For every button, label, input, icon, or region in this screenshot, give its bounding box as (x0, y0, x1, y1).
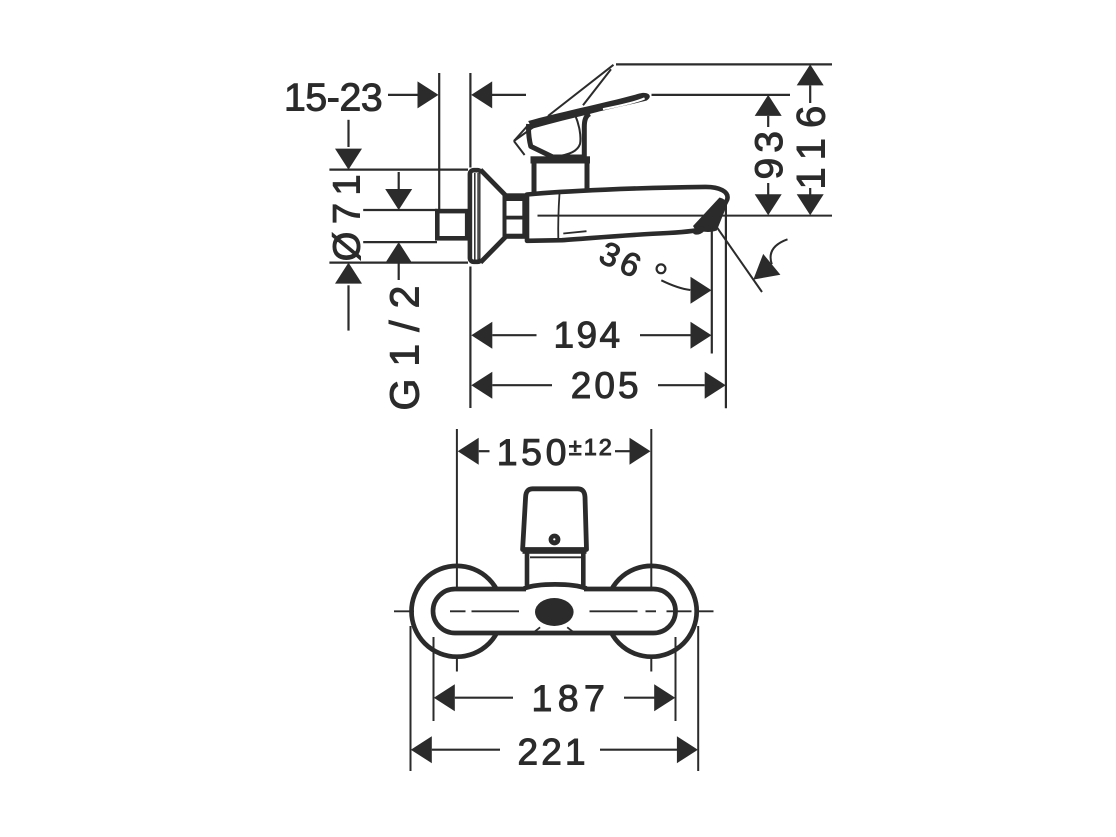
flow direction diagonal (714, 224, 762, 292)
15-23 right-pointing arrow (388, 94, 420, 96)
spout underside seam line (563, 231, 586, 233)
neck left wall (525, 554, 530, 586)
lever blade white sliver (603, 98, 645, 109)
svg-text:150: 150 (497, 431, 570, 473)
G1/2 bottom arrow (up) (385, 242, 412, 263)
dimension 116 up arrow (797, 64, 824, 85)
s-union lower window (507, 220, 523, 234)
Ø71 bottom arrow (up) (335, 263, 362, 284)
extension line at spout tip (725, 205, 727, 408)
handle inner line (530, 556, 581, 558)
svg-text:15-23: 15-23 (284, 77, 382, 120)
dimension 93 up arrow (755, 95, 782, 116)
knob facet line 2 (514, 118, 547, 141)
handle dot (549, 534, 561, 546)
aerator tick right (567, 627, 573, 632)
left escutcheon circle (412, 566, 503, 657)
Ø71 top arrow (down) (347, 120, 349, 147)
spout tip aerator dark face (693, 198, 726, 232)
body stadium (433, 589, 676, 633)
s-union upper window (507, 201, 523, 216)
spout joint line (558, 194, 559, 239)
escutcheon cone (481, 170, 505, 263)
neck right wall (581, 554, 586, 586)
spout-level reference / center line (538, 215, 833, 217)
handle lever blade (528, 93, 650, 129)
top reference line (max lever height) (616, 63, 832, 65)
knob facet line 4 (514, 125, 529, 141)
svg-text:205: 205 (571, 365, 642, 406)
dimension 221 (411, 736, 432, 763)
150 extension / center line right (650, 429, 652, 618)
extension line at spout outlet (711, 226, 713, 354)
knob facet line 1 (556, 115, 580, 156)
221 extension line left (410, 626, 412, 771)
dimension 194 (471, 322, 492, 349)
handle collar bar (531, 156, 591, 163)
cartridge neck right wall (585, 160, 590, 192)
right escutcheon circle (606, 566, 697, 657)
dimension Ø71 bottom line (329, 262, 468, 264)
horizontal center line segments (394, 610, 414, 612)
aerator outlet (535, 598, 574, 626)
aerator tick left (534, 627, 540, 632)
wall connector square (437, 211, 467, 238)
ghost raised lever line 1 (548, 65, 614, 116)
dimension 116 down arrow (809, 188, 811, 195)
flow leader curve (771, 239, 788, 264)
svg-text:221: 221 (518, 731, 589, 772)
escutcheon inner double line (474, 173, 476, 260)
dimension 205 (471, 372, 492, 399)
escutcheon back plate (470, 170, 482, 262)
svg-text:116: 116 (790, 96, 834, 190)
ghost raised lever line 2 (583, 69, 611, 105)
wall finish line (outer) (438, 73, 440, 209)
svg-text:±12: ±12 (569, 434, 614, 460)
dimension 150±12 (458, 438, 479, 465)
wall surface line lower segment (469, 267, 471, 409)
handle knob outline (529, 124, 585, 157)
cartridge neck left wall (532, 160, 537, 192)
187 extension line left (433, 637, 435, 721)
dimension 93 down arrow (767, 183, 769, 195)
wall surface line (469, 73, 471, 168)
15-23 left-pointing arrow (471, 81, 492, 108)
36deg leader curve (661, 280, 690, 290)
neck joint bump mask (526, 583, 584, 592)
G1/2 top arrow (down) (398, 172, 400, 189)
handle bottom bar (523, 548, 587, 554)
svg-text:36: 36 (594, 234, 650, 286)
dimension Ø71 top line (329, 169, 468, 171)
svg-text:187: 187 (532, 677, 611, 719)
svg-text:194: 194 (554, 314, 623, 355)
lever-top reference line right segment (652, 94, 791, 96)
221 extension line right (697, 626, 699, 771)
handle front outline (523, 489, 587, 550)
lever-top reference line left stub (492, 94, 526, 96)
aerator lip blob (692, 225, 707, 237)
svg-text:G1/2: G1/2 (381, 274, 427, 411)
degree ring (657, 264, 666, 273)
faucet body and spout outline (527, 187, 728, 241)
knob facet line 3 (514, 141, 525, 155)
187 extension line right (675, 637, 677, 721)
neck joint bump (524, 584, 587, 588)
G1/2 connector top line (363, 209, 437, 211)
handle neck right edge (584, 114, 589, 157)
dimension 187 (434, 684, 455, 711)
flow leader arrow (753, 254, 780, 280)
s-union connector block (504, 193, 529, 239)
150 extension / center line left (456, 429, 458, 618)
svg-text:Ø71: Ø71 (326, 167, 368, 261)
36deg leader arrow (691, 277, 712, 304)
svg-text:93: 93 (748, 126, 791, 179)
G1/2 connector bottom line (363, 241, 437, 243)
